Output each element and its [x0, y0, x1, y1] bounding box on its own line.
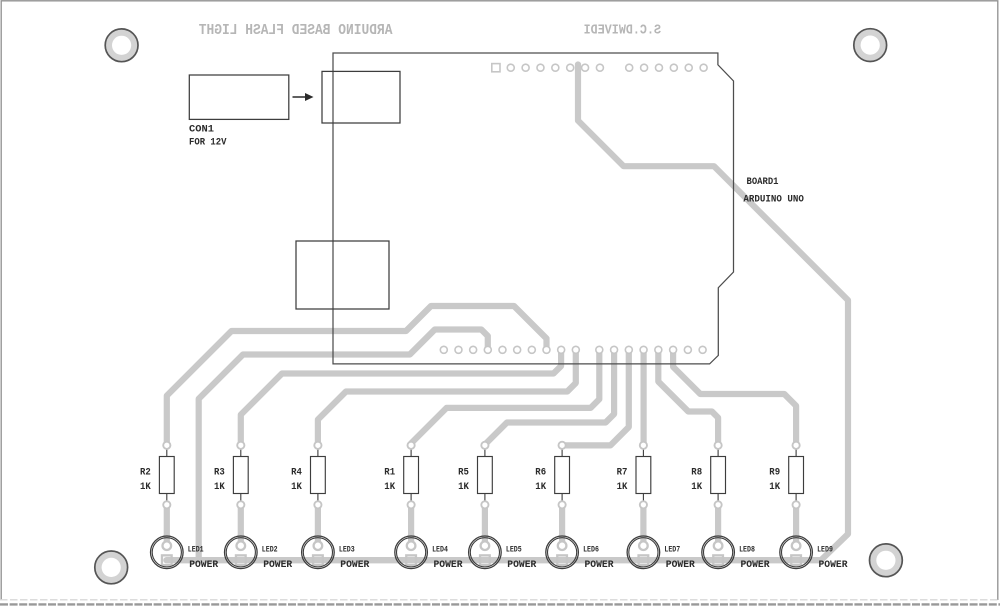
resistor R7 1K [617, 442, 651, 509]
svg-text:LED9: LED9 [817, 545, 833, 554]
wire resistor R5 to LED5 [482, 505, 488, 546]
wire POWER bus along LEDs [167, 557, 821, 563]
title text ARDUINO BASED FLASH LIGHT (mirrored) [199, 22, 393, 39]
resistor R6 1K [535, 442, 569, 509]
svg-text:R7: R7 [617, 467, 628, 479]
board BOARD1 Arduino Uno outline [333, 53, 734, 364]
svg-text:POWER: POWER [507, 559, 537, 571]
svg-text:R1: R1 [384, 467, 395, 479]
svg-text:POWER: POWER [340, 559, 370, 571]
LED LED3 [302, 536, 370, 571]
svg-text:LED4: LED4 [432, 545, 448, 554]
svg-text:R8: R8 [691, 467, 702, 479]
header top row group 1 pads (pin 1 square) [492, 64, 604, 72]
svg-text:LED8: LED8 [739, 545, 755, 554]
resistor R3 1K [214, 442, 248, 509]
svg-text:LED5: LED5 [506, 545, 522, 554]
arrow CON1 to power jack [293, 93, 314, 101]
mounting hole top-right [854, 29, 887, 62]
svg-text:FOR 12V: FOR 12V [189, 137, 227, 149]
LED LED4 [395, 536, 463, 571]
wire resistor R8 to LED8 [715, 505, 721, 546]
svg-text:LED6: LED6 [583, 545, 599, 554]
wire trace to resistor R8 [658, 350, 718, 446]
svg-text:POWER: POWER [819, 559, 849, 571]
resistor R1 1K [384, 442, 418, 509]
svg-text:1K: 1K [384, 481, 395, 493]
wire resistor R4 to LED3 [315, 505, 321, 546]
svg-text:1K: 1K [214, 481, 225, 493]
svg-text:POWER: POWER [263, 559, 293, 571]
wire resistor R3 to LED2 [238, 505, 244, 546]
svg-text:BOARD1: BOARD1 [747, 176, 779, 188]
svg-text:LED3: LED3 [339, 545, 355, 554]
resistor R9 1K [769, 442, 803, 509]
svg-text:POWER: POWER [585, 559, 615, 571]
svg-text:R5: R5 [458, 467, 469, 479]
svg-text:1K: 1K [535, 481, 546, 493]
LED LED5 [469, 536, 537, 571]
svg-text:ARDUINO UNO: ARDUINO UNO [743, 194, 804, 206]
svg-text:1K: 1K [691, 481, 702, 493]
resistor R2 1K [140, 442, 174, 509]
svg-text:LED7: LED7 [664, 545, 680, 554]
wire trace to resistor R1 [411, 350, 599, 446]
svg-text:POWER: POWER [741, 559, 771, 571]
wire trace to resistor R3 [241, 350, 561, 446]
svg-text:1K: 1K [458, 481, 469, 493]
mounting hole top-left [105, 29, 138, 62]
wire resistor R9 to LED9 [793, 505, 799, 546]
wire resistor R2 to LED1 [164, 505, 170, 546]
wire resistor R6 to LED6 [559, 505, 565, 546]
resistor R4 1K [291, 442, 325, 509]
mounting hole bottom-right [870, 544, 903, 577]
svg-text:1K: 1K [617, 481, 628, 493]
wire trace to resistor R5 [485, 350, 614, 446]
wire resistor R1 to LED4 [408, 505, 414, 546]
mounting hole bottom-left [95, 551, 128, 584]
svg-text:1K: 1K [291, 481, 302, 493]
power jack connector on board [322, 71, 400, 123]
svg-text:POWER: POWER [666, 559, 696, 571]
wire trace to resistor R9 [673, 350, 796, 446]
wire trace to resistor R4 [318, 350, 576, 446]
svg-text:LED1: LED1 [188, 545, 204, 554]
svg-text:R4: R4 [291, 467, 302, 479]
wire GND trace pad4 bottom row to POWER bus [199, 330, 488, 561]
header top row group 2 pads [626, 64, 707, 71]
LED LED6 [546, 536, 614, 571]
LED LED7 [627, 536, 695, 571]
USB connector on board [296, 241, 389, 309]
wire trace to resistor R7 [640, 350, 646, 446]
wire resistor R7 to LED7 [640, 505, 646, 546]
LED LED2 [225, 536, 293, 571]
svg-text:LED2: LED2 [262, 545, 278, 554]
svg-text:R6: R6 [535, 467, 546, 479]
connector CON1 [189, 75, 289, 149]
svg-text:R3: R3 [214, 467, 225, 479]
wire trace to resistor R2 [167, 306, 547, 446]
svg-text:POWER: POWER [434, 559, 464, 571]
header bottom row group 1 pads [440, 346, 579, 353]
svg-text:POWER: POWER [189, 559, 219, 571]
svg-text:ARDUINO BASED FLASH LIGHT: ARDUINO BASED FLASH LIGHT [199, 22, 393, 39]
LED LED1 [151, 536, 219, 571]
LED LED9 [780, 536, 848, 571]
resistor R8 1K [691, 442, 725, 509]
svg-text:1K: 1K [769, 481, 780, 493]
svg-text:CON1: CON1 [189, 124, 214, 136]
wire power trace from top header to POWER bus [578, 65, 848, 561]
svg-text:R2: R2 [140, 467, 151, 479]
svg-text:R9: R9 [769, 467, 780, 479]
svg-text:1K: 1K [140, 481, 151, 493]
title text S.C.DWIVEDI (mirrored) [584, 24, 661, 39]
LED LED8 [702, 536, 770, 571]
board BOARD1 labels [743, 176, 804, 206]
header bottom row group 2 pads [596, 346, 706, 353]
wire trace to resistor R6 [562, 350, 629, 445]
svg-text:S.C.DWIVEDI: S.C.DWIVEDI [584, 24, 661, 39]
resistor R5 1K [458, 442, 492, 509]
